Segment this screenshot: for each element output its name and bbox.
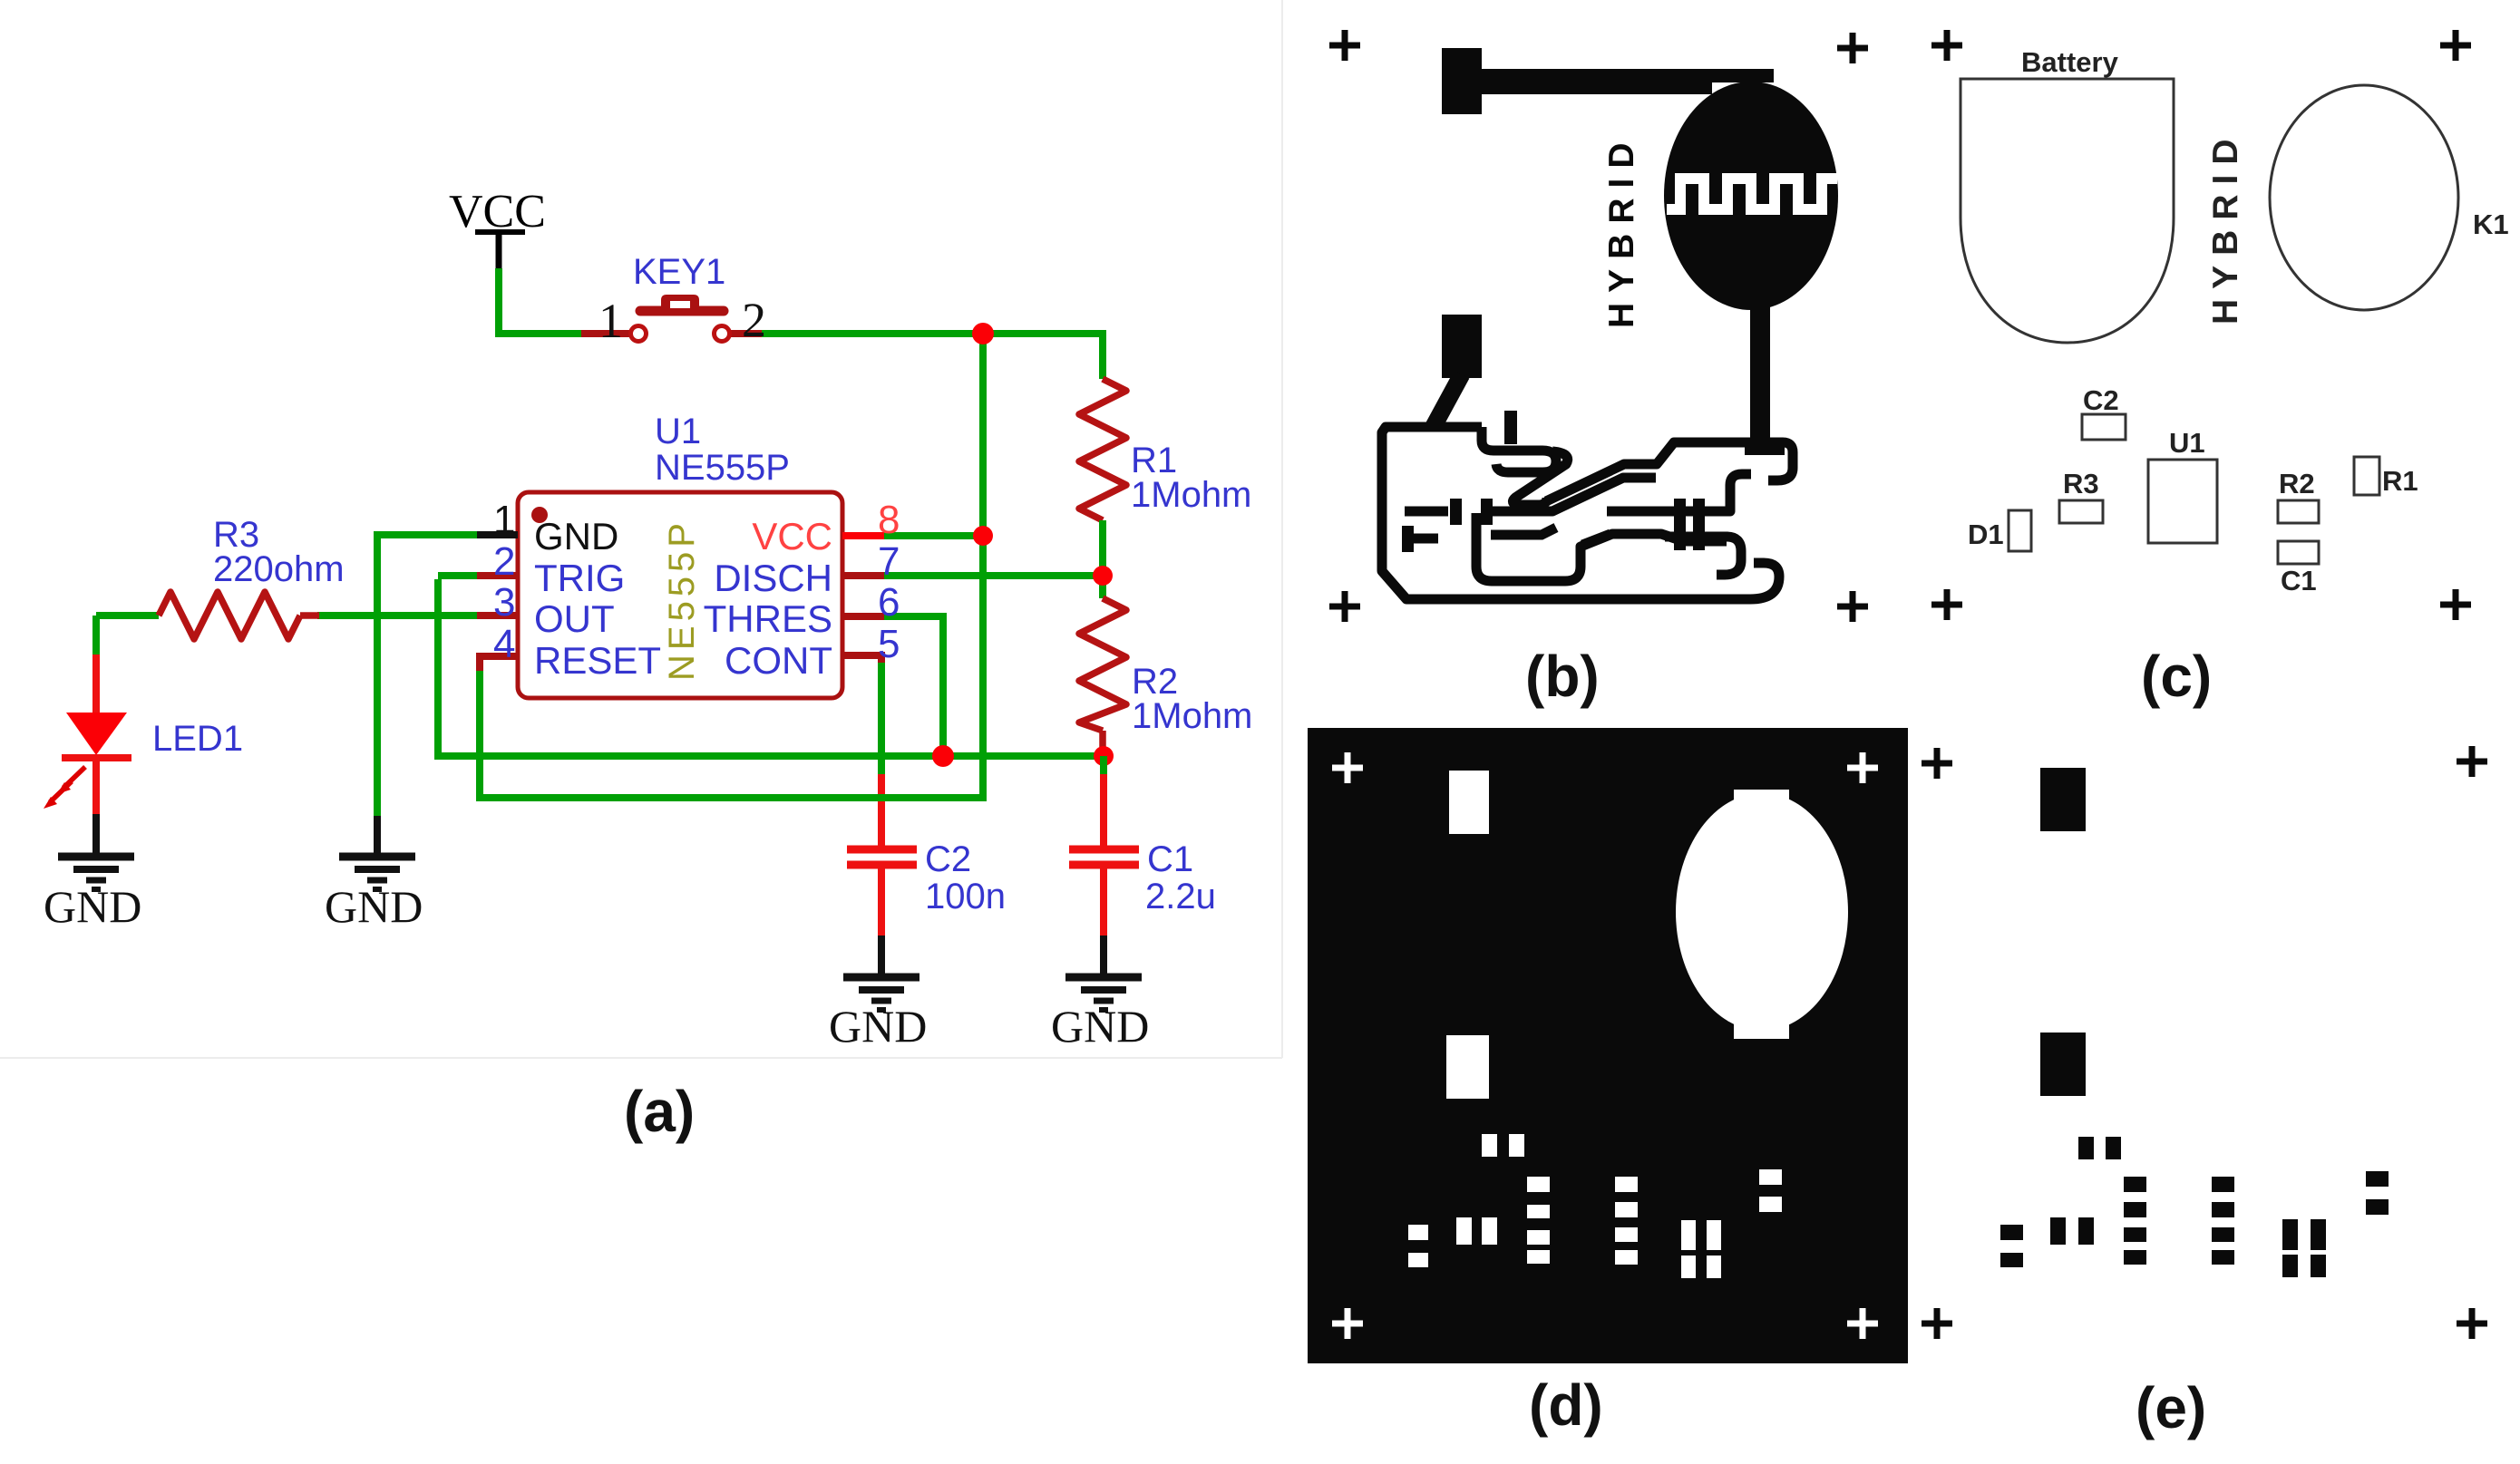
pin 1 lead [477, 531, 518, 538]
svg-text:1: 1 [493, 498, 515, 542]
junction node R2/C1/TRIG [1094, 746, 1114, 766]
pin number 8 [878, 498, 900, 542]
paste cross bottom-right [2457, 1308, 2487, 1339]
wire GND pin1 [377, 535, 479, 820]
trace battery pad lower to circuit [1433, 374, 1462, 428]
pin 4 lead RESET [480, 656, 518, 671]
pin number 2 [493, 539, 515, 584]
svg-text:2.2u: 2.2u [1145, 877, 1216, 916]
capacitor C2 [847, 774, 917, 937]
pin number 4 [493, 622, 515, 666]
trace right row lower with pads [1582, 524, 1741, 575]
capacitor C1 [1069, 756, 1139, 937]
trace right row upper with pads [1607, 474, 1751, 525]
wire TRIG net G1 [438, 579, 1104, 756]
wire KEY1 pin 2 to node VCC junction [758, 330, 1106, 337]
svg-text:NE555P: NE555P [662, 519, 702, 681]
pin number 2 of KEY1 [742, 293, 766, 347]
interdigitated comb slot [1667, 179, 1837, 209]
ground lead LED1 [92, 814, 100, 854]
svg-text:1: 1 [598, 294, 623, 348]
pin number 6 [878, 580, 900, 625]
svg-text:6: 6 [878, 580, 900, 625]
label U1 [2169, 427, 2205, 459]
touch sensor pad HYBRID [1664, 82, 1838, 310]
label R1 [2382, 465, 2418, 497]
svg-text:(a): (a) [624, 1079, 695, 1144]
ground lead C2 [878, 936, 885, 974]
wire pin 7 DISCH to R1/R2 node [873, 572, 1103, 579]
pin number 1 [493, 498, 515, 542]
svg-text:Battery: Battery [2021, 46, 2119, 78]
pin number 5 [878, 622, 900, 666]
paste column A [2124, 1177, 2146, 1265]
wire R1 bottom to R2 top [1099, 520, 1106, 598]
mask opening mid pair [1456, 1217, 1497, 1245]
mask cross bottom-right [1847, 1308, 1878, 1339]
paste quad pads [2282, 1219, 2326, 1277]
svg-text:GND: GND [829, 1001, 927, 1052]
mask opening battery pad lower [1446, 1035, 1489, 1099]
svg-text:RESET: RESET [534, 639, 661, 682]
pin 7 lead [842, 572, 884, 579]
ground symbol LED1 [44, 857, 141, 932]
paste pad pair top [2078, 1137, 2121, 1159]
svg-text:R1: R1 [2382, 465, 2418, 497]
ground symbol C1 [1051, 977, 1149, 1052]
ground lead pin1 [374, 816, 381, 854]
svg-text:8: 8 [878, 498, 900, 542]
junction node pin8/VCC [973, 526, 993, 546]
svg-text:GND: GND [325, 881, 423, 932]
trace inner U [1476, 513, 1727, 581]
wire VCC vertical to pin 8 and RESET net [480, 334, 983, 798]
svg-text:(e): (e) [2136, 1375, 2206, 1440]
pin number 7 [878, 539, 900, 584]
trace diagonal to sensor [1546, 442, 1759, 501]
label HYBRID silk [2206, 129, 2245, 325]
mask cross bottom-left [1332, 1308, 1363, 1339]
wire R3 to LED1 [92, 616, 100, 658]
pin number 3 [493, 580, 515, 625]
op-amp timer U1 NE555P body [518, 492, 842, 698]
label KEY1 [633, 252, 725, 292]
svg-text:OUT: OUT [534, 597, 615, 640]
trace row2 stub [1491, 528, 1556, 535]
svg-text:3: 3 [493, 580, 515, 625]
mask opening quad pads [1681, 1220, 1721, 1278]
trace right hook upper [1759, 442, 1793, 480]
solder mask plate [1308, 728, 1908, 1363]
pin name TRIG [534, 557, 625, 599]
fiducial cross b top-left [1329, 30, 1360, 61]
trace battery pad to sensor [1478, 69, 1774, 94]
svg-text:7: 7 [878, 539, 900, 584]
pin name RESET [534, 639, 661, 682]
svg-text:R2: R2 [2279, 468, 2315, 499]
key outline K1 [2270, 85, 2458, 310]
paste cross bottom-left [1922, 1308, 1952, 1339]
wire TRIG to pin 2 [438, 572, 479, 579]
label C1 [2281, 565, 2317, 596]
battery outline [1961, 79, 2174, 343]
fiducial cross c bottom-right [2440, 589, 2471, 620]
svg-text:LED1: LED1 [152, 719, 243, 759]
wire pin 6 THRES down to TRIG net [873, 616, 943, 756]
mask opening key hole [1676, 790, 1848, 1039]
battery pad top [1442, 48, 1482, 114]
pin name VCC [752, 515, 832, 557]
paste mid pair [2050, 1217, 2094, 1245]
mask opening pad pair top [1482, 1134, 1524, 1157]
ground symbol C2 [829, 977, 927, 1052]
trace left row [1405, 499, 1542, 525]
svg-text:U1: U1 [655, 412, 701, 451]
svg-text:TRIG: TRIG [534, 557, 625, 599]
switch KEY1 [581, 295, 762, 342]
svg-text:C1: C1 [2281, 565, 2317, 596]
footprint R3 [2059, 500, 2103, 523]
paste column B [2212, 1177, 2234, 1265]
footprint R2 [2278, 500, 2319, 523]
pin 6 lead [842, 613, 884, 620]
label HYBRID copper [1602, 132, 1641, 328]
fiducial cross b top-right [1837, 33, 1868, 63]
pad stub bottom-left [1402, 526, 1438, 552]
svg-text:VCC: VCC [752, 515, 832, 557]
svg-text:GND: GND [1051, 1001, 1149, 1052]
label R2 1Mohm [1132, 662, 1252, 736]
wire OUT to R3 [317, 612, 479, 619]
part name NE555P vertical [662, 519, 702, 681]
caption (a) [624, 1079, 695, 1144]
paste battery pad lower [2040, 1033, 2086, 1096]
footprint C2 [2082, 414, 2126, 440]
footprint C1 [2278, 541, 2319, 564]
wire VCC to KEY1 pin 1 [499, 268, 584, 334]
label C1 2.2u [1145, 839, 1216, 916]
pin 8 lead [842, 532, 884, 539]
caption (d) [1529, 1372, 1603, 1438]
svg-text:GND: GND [44, 881, 141, 932]
svg-text:DISCH: DISCH [714, 557, 832, 599]
fiducial cross c top-left [1931, 30, 1962, 61]
mask opening left pair [1408, 1225, 1428, 1267]
pin name THRES [704, 597, 832, 640]
schematic canvas edge [0, 0, 1282, 1058]
mask opening battery pad top [1449, 771, 1489, 834]
svg-text:100n: 100n [925, 877, 1006, 916]
svg-text:(b): (b) [1525, 644, 1600, 709]
label Battery [2021, 46, 2119, 78]
pin name OUT [534, 597, 615, 640]
svg-text:HYBRID: HYBRID [2206, 129, 2245, 325]
svg-text:(d): (d) [1529, 1372, 1603, 1438]
pad stub top [1504, 411, 1517, 444]
junction node THRES/TRIG [932, 745, 954, 767]
label R1 1Mohm [1131, 441, 1251, 515]
label U1 NE555P [655, 412, 790, 488]
paste battery pad top [2040, 768, 2086, 831]
svg-text:C2: C2 [2083, 384, 2119, 416]
fiducial cross c bottom-left [1931, 589, 1962, 620]
label C2 100n [925, 839, 1006, 916]
svg-text:HYBRID: HYBRID [1602, 132, 1641, 328]
trace loop middle [1513, 451, 1656, 511]
battery pad lower [1442, 315, 1482, 378]
pin name DISCH [714, 557, 832, 599]
svg-text:GND: GND [534, 515, 618, 557]
fiducial cross c top-right [2440, 30, 2471, 61]
wire RESET net over C2 lead [871, 794, 892, 801]
junction node VCC/KEY1/R1 [972, 323, 994, 344]
mask opening column B [1615, 1177, 1638, 1265]
svg-text:2: 2 [742, 293, 766, 347]
caption (c) [2141, 644, 2212, 709]
paste cross top-right [2457, 746, 2487, 777]
svg-text:4: 4 [493, 622, 515, 666]
wire VCC junction down to R1 [1099, 330, 1106, 379]
mask cross top-left [1332, 752, 1363, 783]
svg-text:1Mohm: 1Mohm [1131, 475, 1251, 515]
mask opening column A [1527, 1177, 1550, 1264]
label R2 [2279, 468, 2315, 499]
wire pin 8 VCC to junction [873, 532, 983, 539]
pin name GND [534, 515, 618, 557]
wire CONT down to C2 [878, 659, 885, 778]
footprint U1 [2148, 460, 2217, 543]
resistor R3 [96, 592, 319, 639]
resistor R2 [1079, 598, 1126, 754]
svg-text:K1: K1 [2473, 208, 2509, 240]
fiducial cross b bottom-right [1837, 591, 1868, 622]
svg-text:D1: D1 [1968, 519, 2004, 550]
svg-text:NE555P: NE555P [655, 448, 790, 488]
LED LED1 [44, 654, 131, 816]
ground symbol pin1 [325, 857, 423, 932]
svg-text:C2: C2 [925, 839, 971, 879]
circuit block outline [1382, 427, 1779, 599]
power symbol VCC [449, 186, 546, 270]
pin name CONT [725, 639, 832, 682]
caption (e) [2136, 1375, 2206, 1440]
mask opening right pair [1759, 1169, 1782, 1212]
svg-text:KEY1: KEY1 [633, 252, 725, 292]
junction node DISCH/R1/R2 [1093, 566, 1113, 586]
footprint D1 [2009, 510, 2031, 551]
svg-text:220ohm: 220ohm [213, 549, 345, 589]
trace hook top [1482, 427, 1556, 472]
svg-text:C1: C1 [1147, 839, 1193, 879]
svg-text:THRES: THRES [704, 597, 832, 640]
svg-text:(c): (c) [2141, 644, 2212, 709]
trace sensor to circuit [1745, 305, 1785, 455]
resistor R1 [1079, 379, 1126, 520]
pin 5 lead CONT [842, 655, 881, 663]
label D1 [1968, 519, 2004, 550]
paste right pair [2366, 1171, 2389, 1215]
label LED1 [152, 719, 243, 759]
svg-text:1Mohm: 1Mohm [1132, 696, 1252, 736]
pin 3 lead [477, 612, 518, 619]
svg-text:2: 2 [493, 539, 515, 584]
mask cross top-right [1847, 752, 1878, 783]
paste left pair [2000, 1225, 2023, 1267]
svg-text:U1: U1 [2169, 427, 2205, 459]
pin number 1 of KEY1 [598, 294, 623, 348]
label C2 [2083, 384, 2119, 416]
footprint R1 [2354, 457, 2379, 495]
label K1 [2473, 208, 2509, 240]
svg-text:CONT: CONT [725, 639, 832, 682]
svg-text:R3: R3 [2063, 468, 2099, 499]
paste cross top-left [1922, 748, 1952, 779]
svg-text:5: 5 [878, 622, 900, 666]
ground lead C1 [1100, 936, 1107, 974]
label R3 220ohm [213, 515, 345, 589]
pin 2 lead [477, 572, 518, 579]
fiducial cross b bottom-left [1329, 591, 1360, 622]
caption (b) [1525, 644, 1600, 709]
label R3 [2063, 468, 2099, 499]
